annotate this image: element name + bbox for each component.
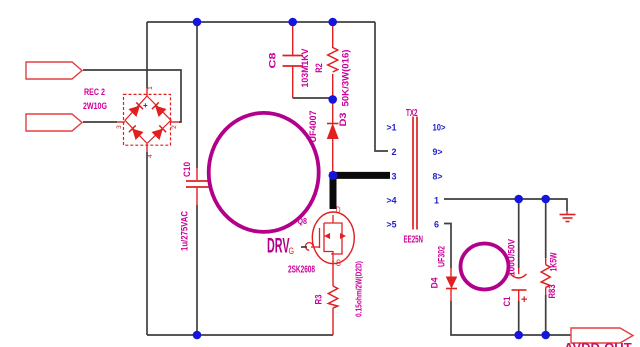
wire bottom rail primary bbox=[147, 334, 333, 336]
wire bridge minus to bottom rail bbox=[146, 152, 148, 335]
svg-text:>4: >4 bbox=[387, 196, 397, 206]
svg-text:D: D bbox=[336, 205, 341, 216]
svg-text:R2: R2 bbox=[314, 63, 324, 73]
svg-text:1: 1 bbox=[147, 86, 154, 90]
svg-text:REC 2: REC 2 bbox=[84, 87, 105, 97]
junction dot bottom rail C10 bbox=[193, 331, 202, 340]
svg-text:3: 3 bbox=[116, 125, 123, 129]
svg-text:D4: D4 bbox=[430, 278, 440, 289]
svg-text:C10: C10 bbox=[182, 162, 192, 177]
svg-text:D3: D3 bbox=[338, 113, 348, 127]
junction dot top rail C10 bbox=[193, 18, 202, 27]
wire top rail to TX2 pin2 bbox=[375, 22, 388, 151]
resistor R2 bbox=[328, 48, 338, 73]
port AC input 1 bbox=[26, 62, 82, 79]
port AC input 2 bbox=[26, 114, 82, 131]
svg-text:1u/275VAC: 1u/275VAC bbox=[180, 211, 190, 251]
svg-text:+: + bbox=[521, 294, 527, 306]
wire C10 branch bbox=[196, 22, 198, 335]
svg-text:1K5W: 1K5W bbox=[549, 252, 559, 271]
svg-text:2: 2 bbox=[171, 125, 178, 129]
wire R83 branch bbox=[545, 199, 547, 335]
svg-text:1: 1 bbox=[434, 196, 439, 206]
svg-text:DRV: DRV bbox=[267, 235, 290, 258]
svg-text:TX2: TX2 bbox=[406, 108, 418, 119]
bridge diode top-right bbox=[152, 102, 166, 116]
bridge rectifier REC2 bbox=[116, 86, 179, 158]
svg-text:+: + bbox=[143, 101, 148, 110]
bridge diode top-left bbox=[129, 102, 143, 116]
wire C1 branch bbox=[518, 199, 520, 335]
svg-text:0.15ohm/2W(D2D): 0.15ohm/2W(D2D) bbox=[354, 261, 364, 317]
wire AC input 1 to bridge pin2 bbox=[83, 70, 181, 122]
junction dot pin1 C1 bbox=[514, 195, 523, 204]
svg-text:103M1KV: 103M1KV bbox=[300, 49, 310, 88]
svg-text:2SK2608: 2SK2608 bbox=[288, 265, 315, 276]
wire TX2 pin1 to ground and loads bbox=[444, 199, 567, 211]
svg-text:9>: 9> bbox=[433, 147, 443, 157]
diode D3 bbox=[327, 124, 339, 139]
port AVDD-OUT output bbox=[564, 328, 633, 347]
svg-text:>5: >5 bbox=[387, 220, 397, 230]
capacitor C10 bbox=[186, 181, 210, 187]
capacitor C1 bbox=[511, 274, 528, 306]
junction dot top rail C8 bbox=[288, 18, 297, 27]
resistor R83 bbox=[541, 265, 550, 288]
wire TX2 pin6 to D4 bbox=[444, 224, 451, 269]
svg-text:Q8: Q8 bbox=[298, 216, 308, 226]
svg-text:10>: 10> bbox=[433, 123, 446, 133]
diode D4 bbox=[446, 277, 457, 289]
junction dot C8 R2 D3 bbox=[328, 95, 337, 104]
annotation circle DRV bbox=[209, 113, 319, 232]
svg-text:UF302: UF302 bbox=[437, 246, 447, 267]
svg-text:50K/3W(016): 50K/3W(016) bbox=[341, 50, 351, 107]
wire D4 to bottom rail secondary bbox=[451, 301, 571, 335]
svg-text:G: G bbox=[289, 246, 295, 257]
svg-text:R3: R3 bbox=[314, 295, 324, 305]
svg-text:3: 3 bbox=[391, 172, 396, 182]
wire R3 to bottom rail bbox=[332, 308, 334, 335]
junction dot bottom R83 bbox=[541, 331, 550, 340]
wire AC input 2 to bridge pin3 bbox=[83, 121, 117, 123]
wire D3 branch bbox=[332, 99, 334, 175]
annotation circle secondary bbox=[461, 244, 509, 290]
wire Q8 source to R3 bbox=[332, 261, 334, 286]
wire thick drain node down to Q8 drain bbox=[330, 172, 337, 209]
wire C8 R2 branch bbox=[293, 22, 333, 99]
svg-text:R83: R83 bbox=[547, 285, 557, 299]
svg-text:4: 4 bbox=[147, 154, 154, 158]
svg-text:AVDD-OUT: AVDD-OUT bbox=[564, 340, 632, 347]
svg-text:EE25N: EE25N bbox=[404, 234, 424, 246]
junction dot pin1 R83 bbox=[541, 195, 550, 204]
wire top rail bbox=[147, 21, 375, 23]
resistor R3 bbox=[328, 286, 337, 308]
ground bbox=[560, 211, 576, 222]
wire thick drain node to TX2 pin3 bbox=[333, 172, 390, 179]
svg-text:S: S bbox=[336, 258, 341, 269]
svg-text:8>: 8> bbox=[433, 172, 443, 182]
transformer TX2 bbox=[413, 117, 417, 230]
svg-text:C8: C8 bbox=[268, 53, 278, 69]
svg-text:C1: C1 bbox=[502, 297, 512, 307]
bridge diode bottom-right bbox=[152, 125, 166, 139]
svg-text:2: 2 bbox=[391, 147, 396, 157]
junction dot drain node bbox=[329, 171, 338, 180]
svg-text:6: 6 bbox=[434, 220, 439, 230]
junction dot bottom C1 bbox=[514, 331, 523, 340]
junction dot top rail R2 bbox=[328, 18, 337, 27]
capacitor C8 bbox=[283, 56, 304, 67]
wire bridge plus to top rail bbox=[146, 22, 148, 88]
svg-text:2W10G: 2W10G bbox=[83, 101, 107, 111]
svg-text:100U/50V: 100U/50V bbox=[507, 239, 517, 276]
transistor Q8 bbox=[301, 212, 354, 264]
wire D4 leads bbox=[450, 268, 452, 301]
bridge diode bottom-left bbox=[129, 125, 143, 139]
svg-text:>1: >1 bbox=[387, 123, 397, 133]
